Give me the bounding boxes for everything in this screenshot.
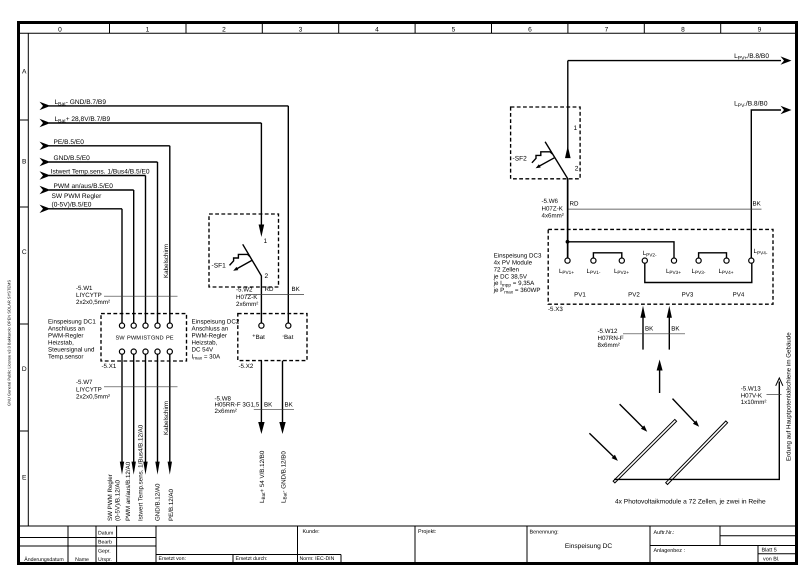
svg-text:PWM-Regler: PWM-Regler [48,332,83,339]
svg-text:BK: BK [292,286,301,293]
svg-text:E: E [22,475,27,482]
svg-text:4x6mm²: 4x6mm² [542,213,564,220]
svg-text:SW PWM Regler: SW PWM Regler [107,474,114,521]
svg-text:PWM-Regler: PWM-Regler [192,332,227,339]
svg-text:2: 2 [575,166,579,173]
svg-text:+Bat: +Bat [252,334,265,342]
svg-text:BK: BK [645,326,654,333]
svg-text:GND/B.12/A0: GND/B.12/A0 [155,483,162,521]
svg-text:5: 5 [452,26,456,33]
svg-text:Imax = 30A: Imax = 30A [192,353,222,360]
svg-text:9: 9 [758,26,762,33]
svg-text:-Bat: -Bat [282,334,293,342]
svg-text:Anschluss an: Anschluss an [48,325,85,332]
svg-text:1: 1 [574,125,578,132]
svg-text:RD: RD [570,201,579,208]
svg-text:Urspr.: Urspr. [98,557,112,563]
svg-text:0: 0 [58,26,62,33]
svg-text:PWM an/aus/B.5/E0: PWM an/aus/B.5/E0 [54,183,114,190]
svg-text:Blatt 5: Blatt 5 [762,548,777,554]
svg-text:Erdung auf Hauptpotentialschie: Erdung auf Hauptpotentialschiene im Gebä… [786,332,793,461]
svg-text:GNU General Public License v3.: GNU General Public License v3.0 Bakkarol… [7,280,12,406]
svg-text:LPV1+: LPV1+ [559,268,574,275]
svg-text:je Pmax = 360WP: je Pmax = 360WP [493,287,541,294]
svg-text:2x2x0,5mm²: 2x2x0,5mm² [76,299,110,306]
svg-text:2x2x0,5mm²: 2x2x0,5mm² [76,394,110,401]
svg-text:Bearb: Bearb [98,540,112,546]
svg-text:(0-5V)/B.12/A0: (0-5V)/B.12/A0 [114,480,121,521]
svg-text:8: 8 [681,26,685,33]
svg-text:-5.W6: -5.W6 [542,198,559,205]
svg-text:1: 1 [146,26,150,33]
svg-text:Einspeisung DC: Einspeisung DC [565,543,613,550]
svg-text:GND: GND [151,336,164,342]
svg-text:LIYCYTP: LIYCYTP [76,292,102,299]
svg-text:SW: SW [116,336,126,342]
svg-text:PV2: PV2 [628,292,640,299]
svg-text:Projekt:: Projekt: [418,529,436,535]
svg-text:H07Z-K: H07Z-K [542,205,564,212]
svg-text:IST: IST [142,336,151,342]
svg-text:Temp.sensor: Temp.sensor [48,353,83,360]
svg-text:-5.W2: -5.W2 [236,287,253,294]
svg-text:7: 7 [605,26,609,33]
svg-text:Steuersignal und: Steuersignal und [48,346,95,353]
svg-text:LPV3-: LPV3- [692,268,706,275]
svg-text:Istwert Temp.sens. 1/Bus4/B.12: Istwert Temp.sens. 1/Bus4/B.12/A0 [137,424,144,521]
svg-text:LPV3+: LPV3+ [666,268,681,275]
svg-text:Name: Name [75,557,89,563]
svg-text:Kabelschirm: Kabelschirm [163,244,170,278]
svg-text:-5.X3: -5.X3 [548,306,563,313]
svg-text:Benennung:: Benennung: [530,529,559,535]
svg-text:Gepr.: Gepr. [98,549,111,555]
svg-text:RD: RD [265,286,274,293]
svg-text:PV3: PV3 [682,292,694,299]
svg-text:1x10mm²: 1x10mm² [741,399,767,406]
svg-text:-5.X1: -5.X1 [102,363,117,370]
svg-text:Anschluss an: Anschluss an [192,325,229,332]
svg-text:PWM an/aus/B.12/A0: PWM an/aus/B.12/A0 [125,461,132,521]
svg-text:LBat+ 54 V/B.12/B0: LBat+ 54 V/B.12/B0 [259,450,266,503]
svg-text:PE/B.5/E0: PE/B.5/E0 [54,139,85,146]
svg-text:D: D [22,366,27,373]
svg-text:C: C [22,249,27,256]
svg-text:GND/B.5/E0: GND/B.5/E0 [54,155,91,162]
svg-text:Norm: IEC-DIN: Norm: IEC-DIN [300,556,335,562]
svg-text:H07Z-K: H07Z-K [236,294,258,301]
svg-text:4x Photovoltaikmodule a 72 Zel: 4x Photovoltaikmodule a 72 Zellen, je zw… [615,499,766,506]
svg-text:Kabelschirm: Kabelschirm [163,401,170,435]
svg-text:6: 6 [528,26,532,33]
svg-text:2: 2 [222,26,226,33]
svg-text:-5.X2: -5.X2 [239,363,254,370]
svg-text:Heizstab,: Heizstab, [48,339,74,346]
svg-text:Anlagenbez :: Anlagenbez : [654,548,685,554]
svg-text:Heizstab,: Heizstab, [192,339,218,346]
svg-text:LPV1-: LPV1- [587,268,601,275]
svg-text:BK: BK [753,201,762,208]
svg-text:-5.W1: -5.W1 [76,285,93,292]
svg-text:Kunde:: Kunde: [303,529,320,535]
svg-text:2x6mm²: 2x6mm² [215,408,237,415]
svg-text:PV4: PV4 [733,292,745,299]
svg-text:3: 3 [299,26,303,33]
svg-text:-SF2: -SF2 [513,156,528,163]
svg-text:LBat- GND/B.12/B0: LBat- GND/B.12/B0 [280,451,287,503]
svg-text:Istwert Temp.sens. 1/Bus4/B.5/: Istwert Temp.sens. 1/Bus4/B.5/E0 [51,169,150,176]
svg-text:SW PWM Regler: SW PWM Regler [52,193,103,200]
svg-text:BK: BK [285,401,294,408]
svg-text:Ersetzt von:: Ersetzt von: [159,556,186,562]
svg-text:(0-5V)/B.5/E0: (0-5V)/B.5/E0 [52,201,92,208]
svg-text:DC 54V: DC 54V [192,346,215,353]
svg-text:LPV4+: LPV4+ [718,268,733,275]
svg-text:-5.W7: -5.W7 [76,379,93,386]
svg-text:BK: BK [264,401,273,408]
svg-text:Auftr.Nr.:: Auftr.Nr.: [654,530,675,536]
svg-text:PE: PE [166,336,174,342]
svg-text:2: 2 [265,273,269,280]
svg-text:PE/B.12/A0: PE/B.12/A0 [168,488,175,521]
svg-text:B: B [22,159,27,166]
svg-text:4: 4 [375,26,379,33]
svg-text:LPV2-: LPV2- [643,250,657,257]
svg-text:LPV4-: LPV4- [754,248,768,255]
svg-text:Änderungsdatum: Änderungsdatum [24,556,64,563]
svg-text:LPV2+: LPV2+ [614,268,629,275]
svg-text:von Bl.: von Bl. [763,557,779,563]
svg-text:BK: BK [671,326,680,333]
svg-text:Einspeisung DC2: Einspeisung DC2 [192,318,240,325]
svg-text:Ersetzt durch:: Ersetzt durch: [236,556,268,562]
svg-text:A: A [22,69,27,76]
svg-text:8x6mm²: 8x6mm² [598,342,620,349]
svg-text:Einspeisung DC1: Einspeisung DC1 [48,318,96,325]
svg-text:2x6mm²: 2x6mm² [236,301,258,308]
svg-text:-SF1: -SF1 [212,263,227,270]
svg-text:PV1: PV1 [574,292,586,299]
svg-text:LPV-/B.8/B0: LPV-/B.8/B0 [734,101,768,109]
svg-text:LIYCYTP: LIYCYTP [76,386,102,393]
svg-text:PWM: PWM [127,336,141,342]
svg-text:1: 1 [264,238,268,245]
svg-text:Datum: Datum [98,531,113,537]
